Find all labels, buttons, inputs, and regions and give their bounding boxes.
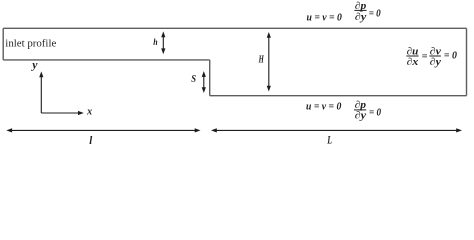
svg-text:u = v = 0: u = v = 0 (306, 102, 341, 113)
bottom boundary condition: u = v = 0 dp/dy = 0 (306, 100, 381, 122)
H dimension arrow (267, 32, 271, 92)
l dimension arrow (6, 128, 200, 132)
svg-text:∂y: ∂y (355, 12, 367, 23)
svg-text:u = v = 0: u = v = 0 (307, 12, 342, 23)
top wall (3, 27, 466, 29)
svg-text:L: L (327, 133, 332, 147)
inlet lower wall (step top) (3, 59, 210, 61)
top boundary condition: u = v = 0 dp/dy = 0 (307, 1, 381, 24)
left inlet boundary (2, 28, 4, 60)
svg-text:=: = (422, 51, 428, 62)
svg-text:= 0: = 0 (444, 51, 457, 62)
svg-text:y: y (30, 57, 38, 71)
coordinate axes (39, 71, 84, 115)
bottom wall (210, 95, 467, 97)
svg-text:S: S (191, 74, 196, 85)
h dimension arrow (161, 31, 165, 54)
svg-text:∂y: ∂y (355, 111, 367, 122)
step vertical face (209, 60, 211, 96)
svg-text:∂x: ∂x (407, 57, 419, 68)
svg-text:= 0: = 0 (369, 108, 381, 119)
S dimension arrow (202, 71, 206, 93)
outlet condition: du/dx = dv/dy = 0 (406, 47, 457, 68)
svg-text:H: H (258, 55, 265, 66)
svg-text:inlet profile: inlet profile (5, 39, 57, 50)
svg-text:= 0: = 0 (369, 9, 381, 20)
svg-text:∂y: ∂y (430, 57, 442, 68)
svg-text:h: h (153, 38, 157, 48)
outlet boundary (466, 28, 468, 95)
svg-text:x: x (86, 106, 92, 117)
L dimension arrow (211, 128, 462, 132)
